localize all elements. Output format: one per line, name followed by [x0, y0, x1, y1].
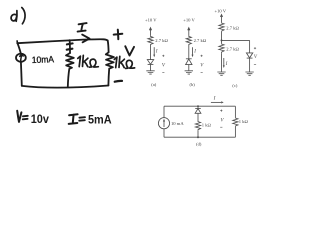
(d) resistor R2 1k right	[233, 117, 238, 126]
(d) current source 10mA	[158, 118, 169, 129]
(c) wire right branch down	[249, 40, 251, 53]
(a) wire cathode	[150, 64, 152, 70]
(d) resistor R1 1k middle	[195, 121, 200, 131]
formula V = 10v	[17, 111, 28, 122]
label 1k ohm right	[114, 56, 134, 68]
(b) plus	[201, 55, 203, 57]
svg-text:2.7 kΩ: 2.7 kΩ	[194, 38, 207, 43]
(c) diode D right	[246, 53, 252, 58]
wire bottom	[22, 86, 109, 88]
(d) diode D middle	[195, 107, 201, 109]
svg-text:V: V	[162, 64, 166, 69]
svg-text:1 kΩ: 1 kΩ	[239, 119, 249, 124]
svg-text:2.7 kΩ: 2.7 kΩ	[155, 38, 168, 43]
(b) wire cathode top	[188, 45, 190, 59]
svg-text:V: V	[221, 119, 225, 124]
(b) diode D reversed	[186, 58, 192, 60]
(d) node dot top	[197, 105, 199, 107]
svg-text:V: V	[254, 55, 258, 60]
svg-text:I: I	[193, 50, 196, 55]
(c) wire node down	[221, 40, 223, 43]
(a) wire anode	[150, 45, 152, 60]
(c) ground right	[245, 72, 253, 75]
wire right branch top	[107, 41, 110, 53]
svg-text:I: I	[213, 97, 216, 102]
(c) wire node to right branch	[222, 39, 250, 41]
(d) minus	[220, 126, 222, 128]
(c) wire to node	[221, 32, 223, 41]
corner overshoot tick top-left	[16, 41, 18, 44]
svg-text:V: V	[200, 64, 204, 69]
svg-text:+10 V: +10 V	[145, 17, 157, 22]
svg-text:(a): (a)	[151, 82, 156, 87]
(d) current source arrow	[163, 121, 165, 127]
formula I = 5mA	[69, 114, 85, 124]
svg-text:1 kΩ: 1 kΩ	[202, 123, 212, 128]
(c) node junction dot	[221, 39, 223, 41]
(a) diode D	[147, 60, 153, 65]
(d) plus	[220, 110, 222, 112]
(a) resistor 2.7k	[148, 36, 153, 45]
(d) wire node to diode	[197, 106, 199, 108]
(b) minus	[201, 71, 203, 73]
(c) resistor R1 2.7k	[219, 22, 224, 32]
svg-text:5mA: 5mA	[88, 113, 112, 127]
(b) wire anode bottom	[188, 65, 190, 71]
(c) plus	[254, 47, 256, 49]
(b) supply arrow	[188, 30, 190, 36]
(b) current arrow I	[192, 47, 194, 55]
(b) resistor 2.7k	[186, 36, 191, 45]
svg-text:10mA: 10mA	[32, 54, 55, 65]
current source I1 10mA	[16, 54, 26, 62]
(d) node dot bottom	[197, 136, 199, 138]
svg-text:(d): (d)	[196, 141, 202, 146]
(a) current arrow I	[153, 47, 155, 55]
(a) plus	[162, 55, 164, 57]
svg-text:2.7 kΩ: 2.7 kΩ	[226, 26, 239, 31]
current source arrow	[20, 54, 23, 61]
svg-text:2.7 kΩ: 2.7 kΩ	[226, 47, 239, 52]
wire left upper	[17, 43, 21, 54]
current arrow on top wire	[82, 35, 89, 43]
wire top	[17, 39, 107, 43]
wire middle branch top	[69, 40, 71, 53]
label 1k ohm middle	[78, 55, 99, 67]
(d) wire resistor to bottom	[197, 131, 199, 138]
(d) current arrow I top	[211, 101, 221, 103]
(c) wire to ground left	[221, 54, 223, 72]
svg-text:+10 V: +10 V	[183, 17, 195, 22]
resistor R2 1k right zigzag	[106, 52, 114, 85]
svg-text:I: I	[155, 50, 158, 55]
(c) wire diode to ground	[249, 58, 251, 72]
(b) ground	[185, 71, 193, 74]
tick marks on middle branch	[67, 43, 73, 49]
(d) wire diode to resistor	[197, 113, 199, 121]
svg-text:10v: 10v	[31, 112, 49, 126]
label I (hand, serif)	[78, 23, 87, 32]
(a) supply arrow	[150, 30, 152, 36]
(a) minus	[162, 71, 164, 73]
svg-text:(c): (c)	[232, 83, 237, 88]
svg-text:10 mA: 10 mA	[171, 121, 184, 126]
(c) ground left	[217, 72, 225, 75]
label minus sign right	[115, 80, 122, 83]
(c) resistor R2 2.7k	[219, 43, 224, 54]
(c) minus	[254, 64, 256, 66]
(c) current arrow I	[223, 58, 225, 66]
(a) ground	[146, 71, 154, 74]
label plus sign right	[114, 30, 123, 40]
svg-text:(b): (b)	[189, 82, 195, 87]
svg-text:I: I	[225, 62, 228, 67]
svg-text:+10 V: +10 V	[215, 8, 227, 13]
(c) supply arrow	[221, 17, 223, 23]
wire left lower	[20, 62, 23, 86]
label d) part letter	[11, 8, 25, 24]
(d) outer loop wires	[164, 106, 235, 137]
resistor R1 1k middle zigzag	[66, 53, 74, 87]
label V right	[125, 46, 134, 55]
